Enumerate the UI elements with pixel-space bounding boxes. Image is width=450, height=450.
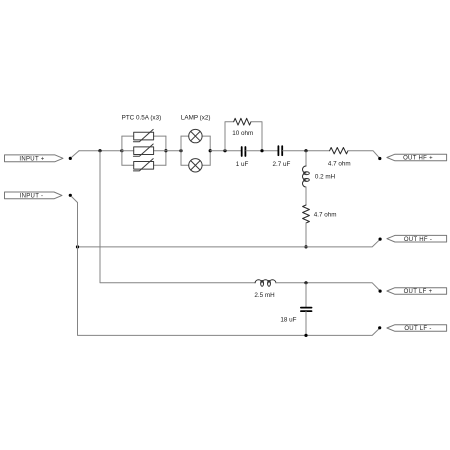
svg-text:0.2 mH: 0.2 mH bbox=[315, 174, 336, 181]
node INPUT + tag bbox=[5, 155, 64, 162]
capacitor C3 18 uF bbox=[301, 308, 312, 312]
input - switch wire bbox=[72, 197, 78, 203]
junction dot PTC left bus bbox=[120, 149, 123, 152]
wire R1 bypass loop left riser bbox=[225, 122, 234, 151]
svg-text:2.5 mH: 2.5 mH bbox=[254, 292, 275, 299]
svg-text:INPUT +: INPUT + bbox=[19, 157, 44, 163]
svg-text:PTC 0.5A (x3): PTC 0.5A (x3) bbox=[122, 114, 162, 121]
junction dot LF- branch bbox=[304, 334, 307, 337]
out LF+ terminal dot bbox=[379, 290, 382, 293]
wire HF branch down bbox=[305, 151, 307, 166]
wire LF+ feed vertical bbox=[100, 151, 255, 283]
svg-text:OUT HF +: OUT HF + bbox=[403, 156, 433, 162]
wire R1 bypass loop right riser bbox=[251, 122, 262, 151]
node INPUT - tag bbox=[5, 192, 63, 199]
thermistor PTC2 (middle) bbox=[122, 144, 166, 156]
junction dot HF- left bbox=[76, 245, 79, 248]
capacitor C2 2.7 uF bbox=[278, 146, 282, 155]
junction dot lamp right bus bbox=[209, 149, 212, 152]
input + terminal dot bbox=[69, 157, 72, 160]
inductor L1 0.2 mH bbox=[303, 166, 310, 187]
wire PTC to LAMP bbox=[166, 150, 181, 152]
resistor R1 10 ohm bbox=[234, 118, 251, 125]
junction dot HF- branch bbox=[304, 245, 307, 248]
lamp L1 (top) bbox=[181, 129, 210, 142]
resistor R2 4.7 ohm bbox=[330, 148, 348, 154]
wire main HF+ line left bbox=[79, 150, 122, 152]
svg-text:OUT LF -: OUT LF - bbox=[404, 326, 431, 332]
svg-text:INPUT -: INPUT - bbox=[20, 194, 44, 200]
node OUT HF + tag bbox=[387, 154, 447, 161]
wire lamp right bus bbox=[209, 136, 211, 165]
thermistor PTC3 (bottom) bbox=[122, 159, 166, 171]
svg-text:4.7 ohm: 4.7 ohm bbox=[314, 212, 337, 219]
input - terminal dot bbox=[69, 194, 72, 197]
svg-text:OUT HF -: OUT HF - bbox=[404, 237, 432, 243]
wire lamp to C1 section bbox=[210, 150, 241, 152]
wire C1 to C2 bbox=[246, 150, 278, 152]
wire R3 to HF- line bbox=[305, 223, 307, 247]
junction dot C1 right bbox=[260, 149, 263, 152]
wire L2 to OUT LF+ bbox=[276, 283, 380, 291]
wire INPUT- vertical to LF- line bbox=[78, 203, 380, 336]
svg-text:10 ohm: 10 ohm bbox=[232, 130, 253, 137]
wire R2 to OUT HF+ bbox=[348, 151, 380, 159]
node OUT LF - tag bbox=[387, 325, 447, 332]
svg-text:2.7 uF: 2.7 uF bbox=[272, 161, 290, 168]
junction dot LF+ feed bbox=[98, 149, 101, 152]
svg-text:1 uF: 1 uF bbox=[236, 161, 249, 168]
wire PTC right bus bbox=[165, 136, 167, 165]
wire lamp left bus bbox=[180, 136, 182, 165]
wire C3 to LF- line bbox=[305, 312, 307, 336]
svg-text:OUT LF +: OUT LF + bbox=[404, 289, 433, 295]
input + switch wire bbox=[72, 151, 79, 158]
wire L1 to R3 bbox=[305, 187, 307, 205]
junction dot lamp left bus bbox=[179, 149, 182, 152]
out HF- terminal dot bbox=[379, 238, 382, 241]
junction dot PTC right bus bbox=[164, 149, 167, 152]
node OUT LF + tag bbox=[387, 288, 447, 295]
wire LF node to C3 bbox=[305, 283, 307, 307]
junction dot R1 riser left bbox=[223, 149, 226, 152]
out LF- terminal dot bbox=[378, 326, 381, 329]
svg-text:LAMP (x2): LAMP (x2) bbox=[181, 114, 211, 121]
svg-text:18 uF: 18 uF bbox=[280, 317, 296, 324]
inductor L2 2.5 mH bbox=[255, 280, 276, 287]
capacitor C1 1 uF bbox=[242, 147, 246, 156]
svg-text:4.7 ohm: 4.7 ohm bbox=[328, 160, 351, 167]
wire C2 to R2 bbox=[283, 150, 330, 152]
junction dot HF node bbox=[304, 149, 307, 152]
thermistor PTC1 (top) bbox=[122, 129, 166, 141]
out HF+ terminal dot bbox=[378, 157, 381, 160]
lamp L2 (bottom) bbox=[181, 159, 210, 172]
junction dot LF node bbox=[304, 281, 307, 284]
wire PTC left bus bbox=[121, 136, 123, 165]
node OUT HF - tag bbox=[387, 235, 447, 242]
resistor R3 4.7 ohm vertical bbox=[303, 205, 310, 223]
wire HF- line bbox=[78, 239, 381, 247]
